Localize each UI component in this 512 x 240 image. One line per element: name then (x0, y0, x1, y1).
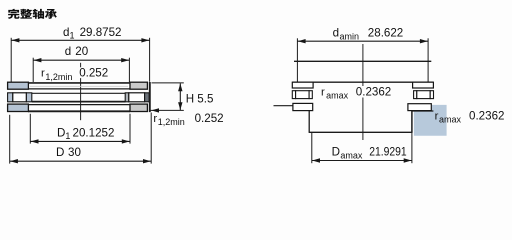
centerline of left bearing figure (80, 63, 82, 120)
in-situ bearing left: housing washer bar (293, 103, 313, 110)
centerline of right abutment figure (362, 44, 364, 140)
label r_amax 0.2362 upper (354, 86, 394, 98)
dimension D (30) lines and arrows (10, 113, 152, 164)
dimension H (5.5) extension lines, arrows, r leader (150, 83, 184, 113)
dimension D_amax (21.9291) lines and arrows (312, 133, 412, 163)
shaft washer seat line (292, 81, 433, 83)
svg-text:d20: d20 (65, 45, 88, 58)
dimension D1 (20.1252) lines and arrows (30, 114, 130, 144)
cage tab inner-right (gray) (125, 93, 129, 102)
dimension d1 (29.8752) lines and arrows (11, 38, 149, 82)
housing washer right section (gray) (130, 104, 147, 111)
in-situ bearing right: cage tab inner (414, 91, 417, 99)
roller right (white) (129, 93, 145, 102)
roller left (white) (13, 93, 27, 102)
in-situ bearing left: cage tab inner (309, 91, 312, 99)
cage tab outer-left (blue) (8, 93, 13, 102)
in-situ bearing right: shaft washer bar (413, 82, 434, 88)
in-situ bearing right: roller (417, 91, 430, 99)
bearing middle section lines (washer surfaces and cage) (28, 83, 130, 111)
in-situ bearing left: roller (296, 91, 310, 99)
in-situ bearing left: cage tab (292, 91, 295, 99)
cage tab outer-right (dark) (145, 93, 150, 102)
dimension d_amin (28.622) lines and arrows (297, 38, 428, 82)
housing outline (274, 106, 434, 133)
shaft washer right section (gray) (130, 82, 147, 89)
dimension d (20) lines and arrows (33, 58, 129, 82)
in-situ bearing right: housing washer bar (408, 104, 431, 111)
cage tab inner-left (blue) (26, 93, 31, 102)
shaft washer left section (blue) (8, 82, 29, 89)
shaft face line (294, 60, 431, 62)
in-situ bearing right: cage tab (430, 91, 433, 99)
svg-text:H5.5: H5.5 (186, 92, 214, 105)
svg-text:D30: D30 (56, 146, 81, 159)
label r 1,2min 0.252 upper (78, 67, 109, 78)
bearing right edge (149, 82, 151, 112)
abutment highlight region (blue) (414, 105, 447, 136)
housing washer left section (blue) (8, 104, 29, 111)
in-situ bearing left: shaft washer bar (292, 82, 313, 88)
title 完整轴承 (8, 9, 57, 19)
